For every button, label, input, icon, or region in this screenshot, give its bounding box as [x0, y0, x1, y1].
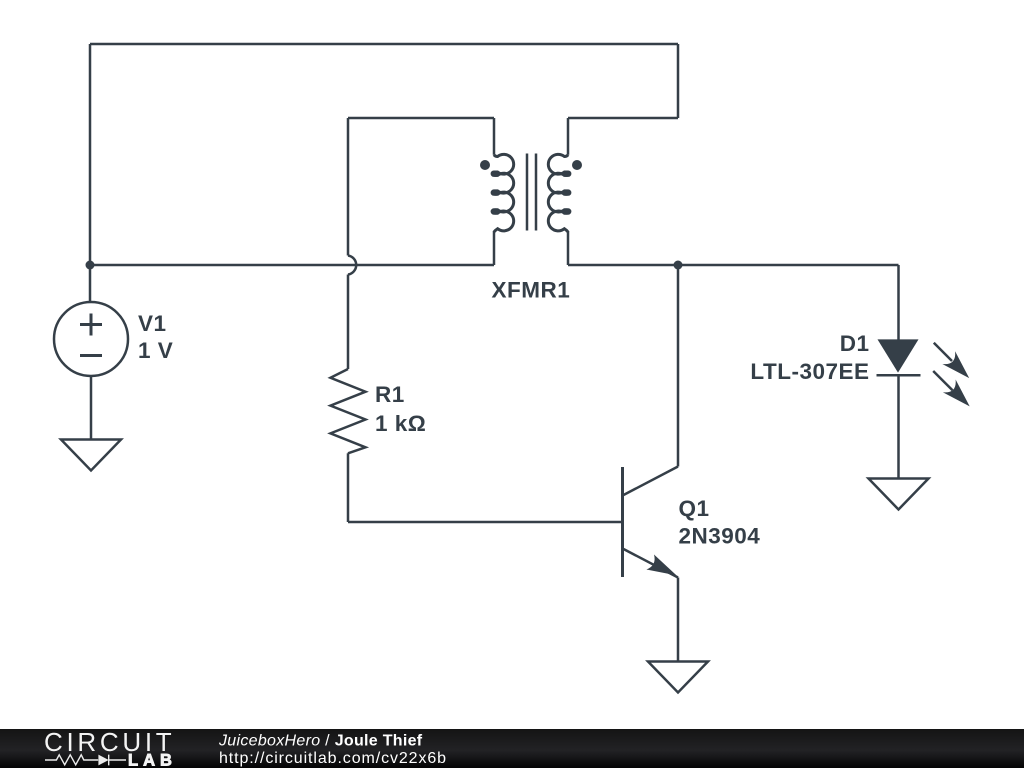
- transformer XFMR1 primary winding lead: [493, 118, 496, 155]
- wire horizontal from left winding top to x=348: [348, 117, 494, 120]
- ground symbol below D1: [869, 479, 929, 510]
- V1 plus sign: [80, 314, 102, 336]
- transformer primary coil tab: [492, 171, 500, 177]
- wire top horizontal V1+ to XFMR secondary: [90, 43, 678, 46]
- transformer XFMR1 primary coil: [492, 154, 514, 232]
- transformer secondary coil tab: [563, 189, 571, 195]
- transformer XFMR1 primary bottom lead: [493, 231, 496, 265]
- resistor R1 zigzag: [331, 369, 366, 453]
- transformer primary phase dot: [480, 160, 490, 170]
- LED D1 cathode bar: [877, 374, 921, 377]
- wire R1 bottom lead: [347, 453, 350, 522]
- transformer primary coil tab: [492, 189, 500, 195]
- svg-text:1 V: 1 V: [138, 338, 173, 363]
- LED D1 triangle: [878, 339, 919, 372]
- footer bar: [0, 729, 1024, 768]
- node B junction dot (collector tap): [674, 261, 683, 270]
- ground symbol below V1: [61, 440, 121, 471]
- wire left vertical from top to node A: [89, 44, 92, 265]
- LED D1 light arrow 1 shaft: [934, 343, 952, 361]
- voltage source V1 circle: [54, 302, 128, 376]
- svg-text:LTL-307EE: LTL-307EE: [750, 359, 869, 384]
- transformer XFMR1 secondary winding lead: [567, 118, 570, 155]
- wire vertical x=348 upper segment: [347, 118, 350, 256]
- transistor Q1 emitter arrow head: [646, 555, 676, 576]
- svg-text:2N3904: 2N3904: [679, 524, 761, 549]
- transformer primary coil tab: [492, 208, 500, 214]
- transformer XFMR1 secondary bottom lead: [567, 231, 570, 265]
- transistor Q1 emitter diagonal: [624, 549, 679, 578]
- wire vertical Q1 collector: [677, 265, 680, 467]
- LED D1 light arrow 1 head: [942, 351, 969, 378]
- wire horizontal to Q1 base: [348, 521, 621, 524]
- ground symbol below Q1: [648, 662, 708, 693]
- svg-text:LAB: LAB: [128, 752, 177, 768]
- transformer secondary phase dot: [572, 160, 582, 170]
- svg-text:Q1: Q1: [679, 496, 710, 521]
- wire node A to V1 top: [89, 265, 92, 302]
- svg-text:R1: R1: [375, 382, 405, 407]
- transformer secondary coil tab: [563, 171, 571, 177]
- wire vertical x=348 to R1 top: [347, 275, 350, 370]
- transistor Q1 base bar: [621, 467, 624, 577]
- wire horizontal secondary bottom to D1 column: [568, 264, 899, 267]
- svg-text:D1: D1: [840, 331, 870, 356]
- svg-text:JuiceboxHero / Joule Thief: JuiceboxHero / Joule Thief: [218, 733, 423, 750]
- transformer XFMR1 secondary coil: [548, 154, 570, 232]
- svg-text:XFMR1: XFMR1: [492, 278, 571, 303]
- wire D1 anode vertical: [897, 265, 900, 340]
- wire top right horizontal to secondary top: [568, 117, 678, 120]
- wire top right vertical x=678: [677, 44, 680, 118]
- LED D1 light arrow 2 shaft: [933, 371, 952, 390]
- transformer secondary coil tab: [563, 208, 571, 214]
- wire hop over y=265 wire: [348, 256, 356, 275]
- transistor Q1 collector diagonal: [624, 467, 679, 496]
- transformer XFMR1 core line left: [526, 154, 529, 231]
- V1 minus sign: [80, 354, 102, 357]
- transformer XFMR1 core line right: [535, 154, 538, 231]
- svg-text:http://circuitlab.com/cv22x6b: http://circuitlab.com/cv22x6b: [219, 750, 447, 767]
- wire V1 bottom to ground: [90, 376, 93, 440]
- wire horizontal node A to primary bottom y=265: [90, 264, 494, 267]
- LED D1 light arrow 2 head: [943, 380, 970, 407]
- svg-text:V1: V1: [138, 311, 167, 336]
- wire Q1 emitter to ground: [677, 578, 680, 662]
- node A junction dot: [86, 261, 95, 270]
- CircuitLab logo diode triangle: [98, 755, 108, 766]
- CircuitLab logo squiggle resistor+diode: [45, 755, 126, 766]
- svg-text:1 kΩ: 1 kΩ: [375, 411, 426, 436]
- wire D1 cathode to ground: [897, 375, 900, 478]
